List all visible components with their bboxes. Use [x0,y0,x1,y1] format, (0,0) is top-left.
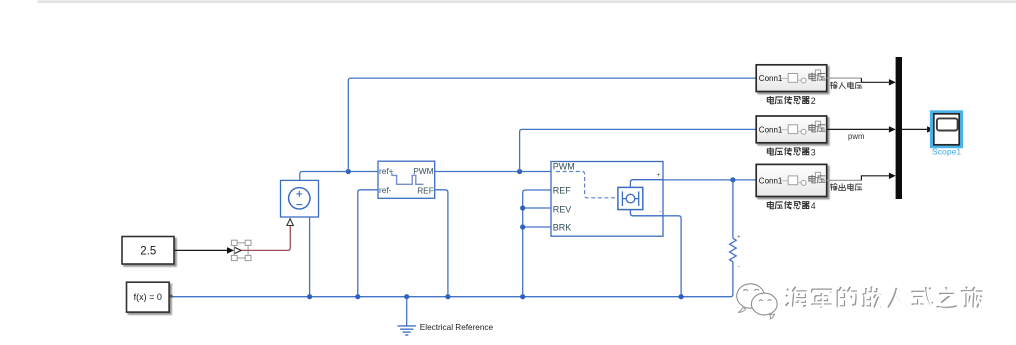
label sensor 4 [767,201,815,211]
label sensor 2 [767,96,815,106]
converter port triangle [234,247,241,253]
svg-text:Conn1: Conn1 [759,177,783,186]
wire PWM out to H-bridge [435,171,551,173]
node rail hbridge minus [679,294,684,299]
scope block Scope1 [930,110,963,156]
wire branch up to sensor3 [520,129,757,171]
wire H-bridge + to sensor4 [663,179,756,181]
svg-text:REV: REV [553,204,572,214]
motor icon inside H-bridge [618,180,663,216]
wire sensor2 output [827,78,896,85]
label sensor 3 [767,147,815,157]
svg-text:f(x) = 0: f(x) = 0 [134,292,162,302]
node source top branch [346,169,351,174]
wire constant to converter [175,247,234,254]
label output voltage [830,183,862,190]
svg-text:2.5: 2.5 [140,246,156,258]
svg-text:PWM: PWM [413,166,433,176]
electrical reference ground [398,297,416,335]
mux bar [896,57,902,199]
wire REF out to rail [435,190,448,297]
svg-text:+: + [657,172,661,179]
wire H-bridge - down to rail [663,216,681,297]
svg-text:PWM: PWM [553,161,575,171]
svg-text:BRK: BRK [553,222,572,232]
svg-text:2: 2 [811,96,816,106]
node rail ref- [355,294,360,299]
toolbar edge strip [38,0,1016,2]
watermark text [786,286,983,308]
controlled PWM voltage block [378,161,435,198]
node rail ground [404,294,409,299]
selection handles [231,240,251,260]
solver port square [170,295,173,298]
voltage sensor subsystem 2 [756,65,827,92]
svg-text:Conn1: Conn1 [759,74,783,83]
svg-text:REF: REF [417,185,434,195]
constant block 2.5 [122,237,174,265]
input port arrow of source [287,219,293,226]
wire source + to ref+ [300,172,378,181]
physical signal wire (red) [242,226,291,251]
wire sensor4 output [827,173,896,181]
svg-text:4: 4 [811,201,816,211]
svg-text:ref-: ref- [379,185,392,195]
voltage sensor subsystem 4 [756,164,827,196]
svg-text:-: - [659,209,661,216]
svg-text:3: 3 [811,147,816,157]
node REV junction [520,205,525,210]
node resistor branch [730,177,735,182]
H-bridge block [551,161,663,236]
node rail hbridge ctrl [520,294,525,299]
node rail source [307,294,312,299]
node rail REF [445,294,450,299]
wire ref- from rail [358,190,378,297]
label input voltage [830,82,862,89]
wire sensor3 output [827,126,896,132]
svg-text:+: + [737,233,741,240]
wire mux to scope [902,126,934,132]
svg-text:-: - [738,263,740,270]
watermark wechat icon [737,284,777,319]
svg-text:Electrical Reference: Electrical Reference [420,323,494,332]
wire source - to rail [309,217,311,297]
node BRK junction [520,224,525,229]
resistor R1 [730,180,741,270]
svg-text:pwm: pwm [848,132,864,141]
node pwm branch [517,169,522,174]
svg-text:Scope1: Scope1 [932,146,961,156]
svg-text:REF: REF [553,185,572,195]
wire rail to REF REV BRK [523,190,551,297]
svg-text:Conn1: Conn1 [759,126,783,135]
wire branch up to sensor2 [348,78,756,171]
voltage sensor subsystem 3 [756,116,827,143]
solver f(x)=0 block [127,282,170,312]
DC voltage source U1 [281,180,319,217]
ground rail wire [172,262,733,297]
